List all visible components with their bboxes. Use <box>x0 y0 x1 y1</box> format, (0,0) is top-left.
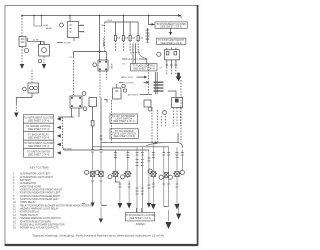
svg-text:LE AT: LE AT <box>43 24 49 27</box>
svg-text:15A: 15A <box>139 37 143 40</box>
svg-text:(SEE SHEET 4 OF 4): (SEE SHEET 4 OF 4) <box>28 137 50 139</box>
svg-text:16 GRN: 16 GRN <box>64 148 72 150</box>
svg-text:TO INSTRUMENT CLUSTER: TO INSTRUMENT CLUSTER <box>156 24 186 26</box>
svg-text:Typical starting, charging, ho: Typical starting, charging, horn,hazard … <box>32 234 164 238</box>
svg-text:LE B: LE B <box>107 20 112 22</box>
svg-text:16 K: 16 K <box>80 25 85 27</box>
svg-text:LE STRT: LE STRT <box>125 77 134 79</box>
svg-text:(SEE SHEET 3 OF 4): (SEE SHEET 3 OF 4) <box>129 218 151 220</box>
svg-text:KEY TO ITEMS: KEY TO ITEMS <box>30 165 49 169</box>
svg-text:TO INSTRUMENT CLUSTER: TO INSTRUMENT CLUSTER <box>24 143 54 145</box>
svg-text:(SEE SHEET 2 OF 4): (SEE SHEET 2 OF 4) <box>160 43 182 45</box>
svg-text:20A: 20A <box>125 37 129 40</box>
svg-text:LE KORN: LE KORN <box>125 82 135 84</box>
svg-text:16 DRN: 16 DRN <box>64 42 72 44</box>
svg-text:TO BACKUP RELAY: TO BACKUP RELAY <box>28 133 49 136</box>
svg-text:(SEE SHEET 2 OF 4): (SEE SHEET 2 OF 4) <box>113 121 135 123</box>
svg-text:(SEE SHEET 3 OF 4): (SEE SHEET 3 OF 4) <box>133 69 155 71</box>
svg-text:(SEE SHEET 2 OF 4): (SEE SHEET 2 OF 4) <box>28 154 50 156</box>
svg-text:TO TAIL/MARKER: TO TAIL/MARKER <box>115 130 134 133</box>
svg-text:TO IGNITION SWITCH: TO IGNITION SWITCH <box>27 151 51 153</box>
svg-text:TO FLASH CONTROL: TO FLASH CONTROL <box>132 65 155 68</box>
svg-text:(SEE SHEET 2 OF 4): (SEE SHEET 2 OF 4) <box>113 136 135 138</box>
svg-text:TO HAZARD CONTROL: TO HAZARD CONTROL <box>26 125 51 128</box>
svg-text:16 DL: 16 DL <box>80 31 86 33</box>
svg-text:TO STOP LAMP SWITCH: TO STOP LAMP SWITCH <box>158 39 184 42</box>
svg-text:JUMPER: JUMPER <box>135 224 145 226</box>
svg-text:15A: 15A <box>117 37 121 40</box>
svg-text:16A: 16A <box>101 24 105 27</box>
svg-text:SEE LEFT: SEE LEFT <box>128 59 139 61</box>
svg-text:PLATE LIGHT SWITCH: PLATE LIGHT SWITCH <box>112 132 136 135</box>
svg-text:20A: 20A <box>131 37 135 40</box>
svg-text:POWER WILL A FUSE CONTACTS: POWER WILL A FUSE CONTACTS <box>20 227 59 230</box>
svg-text:14 RE: 14 RE <box>33 39 39 41</box>
svg-text:AUX BRUS: AUX BRUS <box>128 93 139 96</box>
svg-text:16A B: 16A B <box>103 41 106 47</box>
svg-text:(SEE SHEET 2 OF 4): (SEE SHEET 2 OF 4) <box>160 27 182 29</box>
svg-text:TO INSTRUMENT CLUSTER: TO INSTRUMENT CLUSTER <box>125 215 155 217</box>
svg-text:(SEE SHEET 2 OF 4): (SEE SHEET 2 OF 4) <box>28 120 50 122</box>
svg-text:(SEE SHEET 3 OF 4): (SEE SHEET 3 OF 4) <box>28 129 50 131</box>
svg-text:TO INSTRUMENT CLUSTER: TO INSTRUMENT CLUSTER <box>24 117 54 119</box>
svg-text:24A RT: 24A RT <box>111 62 114 69</box>
svg-text:4A RE: 4A RE <box>46 27 53 30</box>
svg-text:(SEE SHEET 2 OF 4): (SEE SHEET 2 OF 4) <box>28 146 50 148</box>
